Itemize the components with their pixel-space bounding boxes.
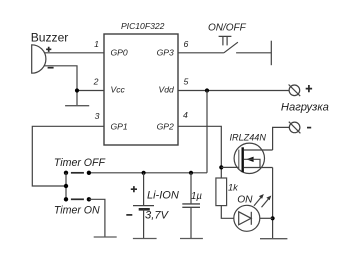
svg-text:3: 3 (95, 111, 100, 121)
svg-text:IRLZ44N: IRLZ44N (230, 133, 267, 143)
LED arrow 1 (254, 197, 262, 206)
node battery junction (142, 171, 146, 175)
battery plate positive (133, 205, 154, 207)
jumper J1 pin A (64, 171, 68, 175)
mosfet drain stub (244, 149, 273, 151)
svg-text:Vdd: Vdd (159, 84, 175, 94)
node capacitor junction (189, 171, 193, 175)
svg-text:PIC10F322: PIC10F322 (121, 21, 165, 31)
jumper J2 pin D (64, 197, 68, 201)
svg-text:GP1: GP1 (111, 122, 128, 132)
wire battery top (143, 173, 145, 206)
svg-text:ON/OFF: ON/OFF (208, 22, 247, 33)
LED triangle (239, 212, 251, 225)
wire capacitor top (190, 173, 192, 204)
wire Vcc pin2 (77, 90, 104, 92)
wire capacitor bottom (190, 207, 192, 238)
wire pin4 GP2 to gate node and resistor (178, 126, 221, 178)
capacitor plate top (182, 203, 200, 205)
switch SW1 actuator (219, 36, 232, 45)
mosfet body line (244, 159, 260, 167)
wire source down (272, 168, 274, 239)
minus sign output (307, 127, 311, 129)
svg-text:Buzzer: Buzzer (31, 30, 69, 44)
wire drain to minus terminal (273, 127, 290, 150)
resistor R1 body (216, 178, 227, 206)
svg-text:Timer ON: Timer ON (54, 205, 100, 217)
battery minus sign (126, 214, 132, 216)
svg-text:Нагрузка: Нагрузка (281, 101, 329, 113)
wire pin6 GP3 to switch (178, 52, 224, 54)
svg-text:1: 1 (94, 39, 99, 49)
wire timer bus (65, 173, 67, 200)
svg-text:GP3: GP3 (157, 47, 174, 57)
switch SW1 lever (224, 42, 238, 53)
mosfet Q1 circle (234, 143, 264, 173)
svg-text:GP0: GP0 (111, 47, 128, 57)
node gate junction (219, 165, 223, 169)
wire Vdd pin5 to plus terminal (178, 90, 289, 92)
terminal plus slash (289, 85, 301, 97)
mosfet source stub (244, 167, 273, 169)
jumper J1 pin B (87, 171, 91, 175)
ground under timer (94, 236, 117, 238)
node source/LED junction (271, 216, 275, 220)
svg-text:1µ: 1µ (191, 191, 202, 202)
mosfet channel bar (241, 147, 243, 172)
wire buzzer+ to pin1 (45, 52, 104, 54)
switch right contact wire (236, 52, 271, 54)
LED arrow 2 (262, 198, 270, 207)
LED cathode bar (250, 212, 252, 225)
mosfet body arrow (246, 157, 253, 162)
terminal plus circle (289, 85, 300, 96)
terminal bar after switch (270, 41, 272, 65)
svg-text:4: 4 (183, 110, 188, 120)
svg-text:ON: ON (237, 194, 253, 205)
node buzzer/Vcc junction (75, 88, 79, 92)
node GP1 junction (64, 184, 68, 188)
battery plate negative (139, 208, 150, 211)
svg-text:3,7V: 3,7V (145, 210, 170, 222)
svg-text:2: 2 (93, 77, 99, 87)
jumper J2 link (71, 198, 84, 200)
mosfet gate bar (238, 150, 240, 170)
node Vdd junction (205, 88, 209, 92)
plus sign output (306, 85, 312, 92)
wire resistor to LED (221, 206, 234, 219)
ground under capacitor (180, 238, 203, 240)
battery B1 plus sign (131, 186, 137, 192)
svg-text:GP2: GP2 (157, 122, 174, 132)
svg-text:6: 6 (184, 39, 189, 49)
ground under source (260, 238, 287, 240)
buzzer BZ1 body (32, 45, 46, 73)
svg-text:5: 5 (184, 77, 189, 87)
wire pin3 GP1 to timer bus (32, 126, 104, 186)
svg-text:Timer OFF: Timer OFF (54, 157, 106, 169)
buzzer plus mark (46, 47, 51, 52)
IC U1 PIC10F322 body (104, 34, 178, 145)
jumper J1 link (71, 172, 84, 174)
jumper J2 pin E (87, 197, 91, 201)
wire timer on to ground (89, 199, 105, 237)
ground under battery (133, 238, 157, 240)
buzzer minus mark (48, 67, 54, 69)
svg-text:Vcc: Vcc (111, 84, 126, 94)
capacitor plate bottom (182, 206, 200, 208)
wire buzzer- down to Vcc node (44, 66, 77, 106)
LED D1 circle (234, 205, 260, 231)
terminal minus slash (289, 122, 301, 134)
svg-text:Li-ION: Li-ION (147, 190, 179, 202)
terminal minus circle (289, 122, 300, 133)
wire battery bottom (143, 209, 145, 238)
wire LED to source node (260, 217, 273, 219)
wire Vdd vertical to rail (206, 91, 208, 173)
wire supply rail (89, 172, 207, 174)
wire gate lead (221, 166, 239, 168)
ground under buzzer (65, 105, 89, 107)
svg-text:1k: 1k (228, 183, 239, 193)
